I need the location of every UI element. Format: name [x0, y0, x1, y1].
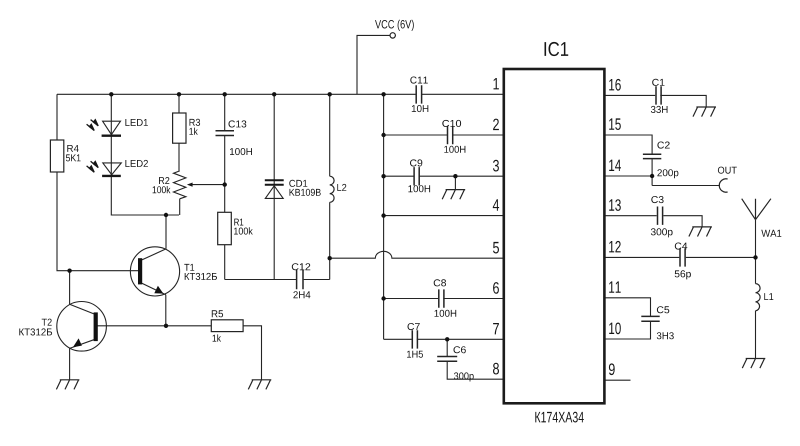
- transistor T2: [57, 302, 107, 352]
- label T1: [184, 264, 194, 271]
- ground under T2: [56, 380, 79, 390]
- label 10H: [412, 105, 429, 112]
- label 13: [609, 199, 621, 211]
- label VCC (6V): [375, 20, 414, 31]
- LED LED1: [103, 121, 121, 134]
- capacitor C4: [680, 248, 685, 266]
- node T1 base / T2 collector: [67, 269, 71, 273]
- wire pin5 row with hop: [330, 251, 504, 258]
- ground under L1: [742, 359, 765, 369]
- label 9: [609, 363, 615, 375]
- wire C13-R1 branch: [224, 94, 226, 279]
- label KB109B: [290, 189, 321, 196]
- wire pin1 is top rail, C11 in it; pin2 row: [384, 134, 504, 136]
- label 100H: [444, 146, 465, 153]
- label C8: [434, 279, 446, 286]
- label 4: [493, 199, 499, 210]
- label 6: [493, 282, 499, 294]
- node bus-pin2: [381, 133, 385, 137]
- label 2H4: [293, 291, 310, 298]
- wire pin3 ground stub: [454, 176, 456, 189]
- wire R2 wiper to C13 line: [192, 184, 225, 186]
- node rail-LED: [109, 92, 113, 96]
- capacitor C1: [656, 86, 661, 104]
- label C7: [408, 323, 420, 330]
- node pin14-C2: [650, 174, 654, 178]
- ground at C1: [693, 107, 716, 117]
- label 11: [609, 281, 621, 292]
- label 5: [493, 242, 499, 254]
- capacitor C5: [641, 316, 659, 321]
- label CD1: [289, 180, 307, 187]
- label 12: [609, 241, 621, 253]
- node L2-C12-pin5: [328, 256, 332, 260]
- VCC terminal: [390, 33, 395, 38]
- ground at R5: [248, 380, 271, 390]
- wire T2 base row to R5: [97, 325, 211, 327]
- wire antenna column: [755, 220, 757, 359]
- label 15: [609, 118, 621, 130]
- label C11: [410, 77, 428, 84]
- label 33H: [651, 106, 668, 113]
- resistor R4: [50, 140, 63, 172]
- node rail-CD1: [272, 92, 276, 96]
- label 8: [493, 363, 499, 375]
- label C3: [651, 196, 663, 203]
- wire L2 branch: [329, 94, 331, 258]
- node T1 collector: [164, 213, 168, 217]
- node bus-pin6: [381, 296, 385, 300]
- label 100k: [153, 186, 171, 193]
- wire CD1 branch: [273, 94, 275, 279]
- label L1: [764, 293, 773, 300]
- capacitor C12: [297, 270, 303, 289]
- capacitor C11: [416, 85, 421, 103]
- wire T2 emitter drop: [69, 348, 71, 379]
- label C9: [410, 159, 422, 166]
- label 10: [609, 323, 621, 335]
- wire pin7 row: [384, 338, 504, 340]
- wire C6 branch to pin8: [447, 339, 503, 379]
- label 16: [609, 79, 621, 91]
- wire pin11 to C5: [605, 298, 651, 316]
- wire pin15 to C2: [605, 135, 652, 154]
- wire T2 collector drop: [69, 271, 71, 305]
- wire VCC drop: [357, 35, 390, 94]
- node rail-L2: [328, 92, 332, 96]
- label КТ312Б: [19, 328, 52, 335]
- label 1k: [189, 128, 197, 135]
- label LED1: [125, 119, 147, 126]
- label 300p: [454, 372, 474, 381]
- wire pin16 row: [605, 95, 706, 107]
- wire pin13 row: [605, 216, 702, 227]
- label R4: [67, 145, 78, 152]
- capacitor C3: [658, 207, 663, 225]
- label 5K1: [66, 154, 81, 161]
- node rail-R3: [177, 92, 181, 96]
- wire T1 emitter: [165, 295, 167, 326]
- label КТ312Б: [185, 273, 217, 280]
- wire C5 to pin10: [605, 322, 651, 339]
- antenna WA1: [742, 199, 771, 220]
- resistor R1: [218, 212, 232, 244]
- label C6: [454, 346, 466, 353]
- transistor T1: [130, 247, 179, 296]
- wire pin3 row: [384, 175, 504, 177]
- label 2: [493, 119, 499, 131]
- wire C12 row: [225, 258, 330, 279]
- label 1H5: [407, 351, 423, 358]
- label R5: [212, 310, 223, 317]
- label C1: [652, 79, 664, 86]
- node pin7-C6: [445, 337, 449, 341]
- wire OUT line: [652, 185, 720, 187]
- label 100H: [408, 185, 430, 192]
- label C10: [442, 120, 461, 127]
- OUT connector: [719, 179, 727, 192]
- capacitor C10: [448, 126, 453, 144]
- node antenna-pin12: [753, 255, 757, 259]
- wire R5 right to ground: [243, 326, 261, 380]
- capacitor C13: [216, 131, 235, 136]
- node bus-pin4: [381, 213, 385, 217]
- label OUT: [718, 167, 737, 174]
- label C5: [657, 306, 669, 313]
- varicap CD1: [265, 180, 284, 185]
- label 3H3: [657, 332, 674, 339]
- label R3: [190, 119, 201, 126]
- label 7: [493, 323, 499, 334]
- IC U1 body: [504, 69, 605, 403]
- node rail-bus: [381, 92, 385, 96]
- capacitor C8: [439, 289, 444, 307]
- capacitor C6: [437, 357, 457, 362]
- label 100H: [435, 310, 457, 317]
- resistor R3: [173, 113, 186, 143]
- ground at C3: [689, 227, 712, 237]
- node rail-C13: [223, 92, 227, 96]
- capacitor C7: [412, 330, 417, 348]
- resistor R5: [211, 320, 243, 332]
- LED1 arrows: [87, 120, 99, 131]
- wire C2 to pin14 node: [651, 159, 653, 185]
- label T2: [42, 319, 52, 326]
- inductor L2: [330, 176, 334, 202]
- label 100k: [234, 227, 253, 234]
- label 14: [609, 160, 621, 171]
- node bus-pin3: [381, 174, 385, 178]
- label R1: [234, 219, 243, 226]
- label C4: [675, 243, 688, 250]
- wire pin4 row: [384, 215, 504, 217]
- label IC1: [545, 42, 569, 56]
- node R2 wiper: [223, 182, 227, 186]
- wire pin9 stub: [605, 379, 631, 381]
- LED2 arrows: [87, 161, 99, 172]
- node T1 emitter / T2 base: [164, 324, 168, 328]
- label 56p: [675, 270, 691, 279]
- capacitor C9: [414, 167, 419, 185]
- wire pin6 row: [384, 298, 504, 300]
- wire vertical bus: [383, 94, 385, 339]
- label C2: [657, 142, 669, 149]
- label LED2: [125, 160, 147, 167]
- wire pin14 row: [605, 175, 652, 177]
- label 3: [493, 160, 499, 172]
- label R2: [159, 177, 169, 184]
- capacitor C2: [643, 154, 661, 158]
- inductor L1: [756, 284, 761, 311]
- label C13: [229, 120, 247, 127]
- label 1: [494, 78, 499, 89]
- wire LED branch: [111, 94, 179, 215]
- potentiometer R2 wiper arrow: [187, 183, 193, 187]
- wire T1 collector: [165, 215, 167, 249]
- wire R4 branch: [57, 94, 138, 270]
- label 100H: [230, 148, 252, 155]
- LED LED2: [103, 163, 122, 175]
- label WA1: [761, 230, 781, 237]
- label 300p: [651, 228, 673, 237]
- label 1k: [213, 334, 221, 341]
- ground at pin3 row: [442, 190, 465, 200]
- potentiometer R2: [174, 171, 186, 199]
- label C12: [292, 263, 311, 270]
- label 200p: [657, 169, 678, 178]
- wire top supply rail: [57, 93, 504, 95]
- node pin3 ground: [453, 174, 457, 178]
- label L2: [337, 184, 346, 191]
- wire pin12 row: [605, 256, 756, 258]
- wire R3-R2 branch: [178, 94, 181, 215]
- label К174ХА34: [535, 412, 584, 423]
